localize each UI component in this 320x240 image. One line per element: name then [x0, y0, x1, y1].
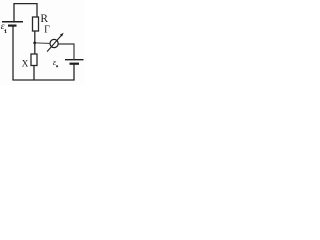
svg-text:Г: Г [44, 25, 50, 36]
wire below X [33, 66, 35, 81]
battery Ex bottom plate [70, 63, 80, 65]
wire bottom [12, 79, 74, 81]
battery Ex top plate [65, 59, 84, 61]
resistor X box [31, 54, 37, 66]
battery E1 bottom plate [8, 25, 17, 27]
svg-text:ε: ε [1, 21, 5, 32]
galvanometer arrow [47, 35, 62, 52]
battery E1 top plate [2, 21, 23, 23]
resistor R box [33, 17, 39, 31]
svg-text:X: X [22, 60, 29, 70]
wire right lower [73, 64, 75, 81]
node junction [33, 42, 36, 45]
wire center [34, 31, 36, 54]
wire right upper [58, 44, 74, 60]
galvanometer G circle [50, 39, 58, 47]
wire galvanometer left [35, 42, 50, 45]
svg-text:R: R [40, 13, 48, 25]
wire left [12, 26, 14, 80]
wire top [14, 4, 37, 22]
